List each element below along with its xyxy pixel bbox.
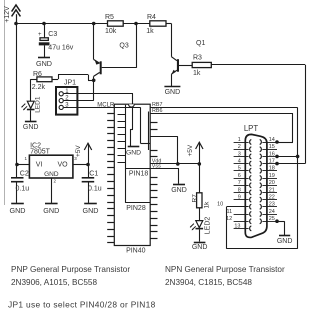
svg-text:C3: C3 [48,31,57,38]
svg-text:Q1: Q1 [196,40,205,47]
IC programming socket PIN40 outline [114,104,150,254]
svg-text:LED1: LED1 [34,96,41,113]
ground under C3 [36,58,52,68]
svg-text:15: 15 [269,144,275,150]
svg-text:2N3904, C1815, BC548: 2N3904, C1815, BC548 [165,278,252,287]
svg-text:RB6: RB6 [152,108,163,114]
wire +12V rail vertical down to regulator [15,24,29,167]
resistor R6 2.2k [32,71,52,91]
svg-text:8: 8 [238,187,241,193]
ground under regulator [43,204,59,216]
svg-text:R4: R4 [147,14,156,21]
internal wire MCLR column [141,107,151,143]
ground under Q1 [164,87,180,96]
svg-text:GND: GND [83,206,99,215]
svg-text:4: 4 [238,159,241,165]
wire RB7 to LPT pin16 loop [150,102,299,249]
svg-text:1k: 1k [193,70,201,77]
node +12V [4,5,20,24]
ground under Vss [171,185,187,195]
svg-text:GND: GND [10,206,26,215]
svg-text:GND: GND [36,59,52,68]
svg-text:+5V: +5V [75,145,82,157]
svg-text:R3: R3 [193,54,202,61]
ground under C2 [10,204,26,216]
capacitor C3 47u 16v [38,24,74,58]
svg-text:20: 20 [269,180,275,186]
inner chip outline left edge [125,105,127,203]
ground under LED1 [23,122,39,131]
LED LED2 [190,217,212,242]
resistor R3 1k [192,54,211,77]
svg-text:10: 10 [217,202,223,208]
svg-text:NPN General Purpose Transistor: NPN General Purpose Transistor [165,265,285,274]
svg-text:3: 3 [238,151,241,157]
inner 28-pin outline PIN28 [126,203,151,213]
svg-text:GND: GND [277,238,293,245]
node +5V near LPT [187,142,203,164]
connector JP1 [56,80,77,115]
LPT right pin contacts [260,140,262,224]
svg-text:6: 6 [238,173,241,179]
svg-text:12: 12 [226,216,232,222]
net Vss to ground [126,164,180,184]
capacitor C1 0.1u [82,165,102,203]
svg-text:PIN28: PIN28 [126,205,146,212]
svg-text:11: 11 [226,209,232,215]
svg-text:9: 9 [238,195,241,201]
svg-text:1k: 1k [146,28,154,35]
svg-text:GND: GND [192,244,208,251]
ground under LED2 [192,243,208,252]
svg-text:LPT: LPT [244,124,259,133]
net Vdd to +5V [150,158,201,165]
resistor R4 1k [146,14,166,35]
svg-text:JP1 use to select PIN40/28 or: JP1 use to select PIN40/28 or PIN18 [8,300,156,310]
wire R6 to Q3 collector node [52,75,94,81]
svg-text:Q3: Q3 [119,43,128,50]
svg-text:18: 18 [269,166,275,172]
caption NPN transistor types [165,265,285,287]
svg-text:23: 23 [269,202,275,208]
svg-text:GND: GND [126,149,141,156]
svg-text:+12V: +12V [4,6,11,23]
svg-text:25: 25 [269,216,275,222]
svg-text:R7: R7 [192,194,199,203]
resistor R7 1k [192,164,211,221]
transistor Q3 PNP [92,24,137,83]
svg-text:22: 22 [269,195,275,201]
svg-text:GND: GND [44,171,59,178]
inner 18-pin stubs [118,115,126,163]
node +5V at regulator [75,143,92,164]
socket right pins [150,123,157,239]
svg-text:GND: GND [165,89,181,96]
wire regulator ground pin [51,178,53,203]
svg-text:13: 13 [234,223,240,229]
LPT left pin stubs and numbers 1-13 [217,137,249,229]
wire +12V rail horizontal [14,22,171,26]
svg-text:GND: GND [23,124,39,131]
LPT left pin contacts [250,140,252,231]
caption PNP transistor types [11,265,130,287]
capacitor C2 0.1u [11,165,29,203]
svg-text:PIN18: PIN18 [129,171,149,178]
svg-text:2: 2 [238,144,241,150]
svg-text:GND: GND [171,187,187,194]
wire JP1 pin3 MCLR [64,102,141,108]
LED LED1 [21,96,41,121]
internal wire right column [148,112,150,151]
svg-text:VI: VI [36,161,43,168]
wire JP1 pin2 to Q3 collector [64,80,94,100]
ground internal socket [126,147,141,157]
svg-text:VO: VO [58,161,69,168]
svg-text:0.1u: 0.1u [88,186,102,193]
inner 18-pin outline PIN18 [129,171,149,178]
svg-text:24: 24 [269,209,275,215]
regulator IC2 7805T [24,143,77,184]
svg-text:19: 19 [269,173,275,179]
svg-text:PIN40: PIN40 [126,247,146,254]
socket left pins [107,114,114,243]
svg-text:7: 7 [238,180,241,186]
caption JP1 usage [8,300,156,310]
svg-text:C1: C1 [89,170,98,177]
wire JP1 pin1 to socket internal [64,94,133,147]
svg-text:0.1u: 0.1u [16,186,30,193]
wire R6 to LED1 [31,79,37,101]
svg-text:10k: 10k [105,28,117,35]
svg-text:16: 16 [269,151,275,157]
wire socket pin to Vdd [150,136,179,165]
svg-text:JP1: JP1 [64,80,76,87]
wire LPT pin25 to ground [275,219,284,235]
svg-text:R5: R5 [105,14,114,21]
wire LPT pin16 stub [275,155,297,159]
svg-text:GND: GND [43,206,59,215]
svg-text:21: 21 [269,187,275,193]
svg-text:1k: 1k [204,201,211,209]
svg-text:2.2k: 2.2k [32,84,46,91]
svg-text:+5V: +5V [187,144,194,156]
transistor Q1 NPN [171,24,205,87]
svg-text:1: 1 [238,137,241,143]
ground under LPT pin25 [277,236,293,246]
svg-text:MCLR: MCLR [97,102,115,108]
svg-text:47u 16v: 47u 16v [48,45,73,52]
wire RB6 to LPT pin14 [150,108,293,144]
resistor R5 10k [105,14,123,35]
svg-text:C2: C2 [20,170,29,177]
wire regulator output [73,163,90,167]
svg-text:LED2: LED2 [205,217,212,235]
svg-text:2N3906, A1015, BC558: 2N3906, A1015, BC558 [11,278,97,287]
ground under C1 [83,204,99,216]
svg-text:PNP General Purpose Transistor: PNP General Purpose Transistor [11,265,130,274]
svg-text:5: 5 [238,166,241,172]
svg-text:17: 17 [269,159,275,165]
svg-text:14: 14 [269,137,275,143]
connector LPT DB25 [244,124,267,237]
wire R3 to LPT pin17 [211,65,305,166]
LPT right pin stubs and numbers 14-25 [262,137,277,222]
